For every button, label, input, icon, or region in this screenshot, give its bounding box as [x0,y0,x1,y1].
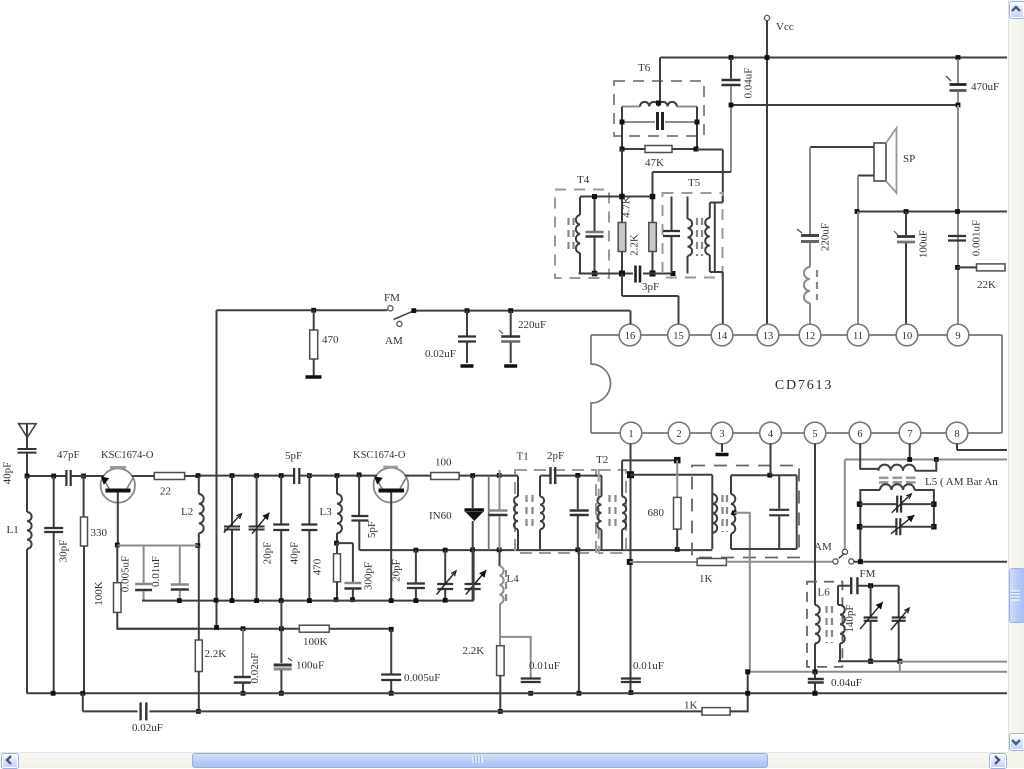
node junction L2 bottom [195,543,200,548]
wire switch contact riser x844.8 [844,460,846,549]
horizontal scrollbar track [0,752,1008,768]
node junction switch column [214,625,219,630]
svg-text:AM: AM [385,335,403,347]
inductor L6 primary [815,605,820,643]
wire 0.04uF bottom link y172 [653,171,732,173]
resistor 4.7K [618,223,626,252]
wire second supply rail y105 [731,104,958,106]
svg-text:9: 9 [955,331,960,342]
transformer T2 dashed box [599,470,626,553]
node junction T6 right y122 [695,120,700,125]
svg-text:680: 680 [648,507,665,519]
node junction L3 bottom [334,541,339,546]
svg-text:0.02uF: 0.02uF [425,348,456,360]
node secondary tap [732,510,737,515]
svg-text:3: 3 [719,429,724,440]
svg-text:22: 22 [160,486,171,498]
wire switch to FM tank [854,561,1007,563]
resistor 470 (L3 damping) [336,543,338,554]
capacitor 140pF (FM, series) [838,585,851,587]
node junction varcap2 bottom [254,598,259,603]
wire pin14 riser upper [722,150,724,197]
wire bias line y545.5 [117,545,198,547]
wire x216.5 vertical (switch to bias line) [216,310,218,627]
node junction 0.02uF top [241,626,246,631]
node junction FM line [868,583,873,588]
resistor 100 (series) [408,475,430,477]
node junction Q1 base/100K [115,543,120,548]
node junction tank right low [931,524,937,530]
node junction varcap8 bottom [897,659,902,664]
variable capacitor (AM tuning) [472,550,474,583]
vertical scrollbar track [1008,0,1024,751]
svg-text:470uF: 470uF [971,81,999,93]
wire speaker bottom feed [858,175,874,177]
node junction L5 right riser [934,457,939,462]
transformer L6 dashed box [807,582,842,667]
svg-text:330: 330 [91,527,108,539]
svg-text:1: 1 [628,429,633,440]
svg-text:0.02uF: 0.02uF [132,722,163,734]
node junction varcap2 top [254,473,259,478]
capacitor 5pF (Q2 emitter) [358,475,360,515]
wire T4 top rail y196.5 [580,196,653,198]
node junction at (731,105) [729,103,734,108]
capacitor T6 resonating (series in y122 line) [622,121,655,123]
svg-text:L6: L6 [818,587,831,599]
wire Vcc vertical to pin 13 [766,21,768,325]
capacitor 20pF (2nd) [415,550,417,582]
node junction 0.02uF ground [241,691,246,696]
transformer T6 winding [622,106,640,108]
svg-text:0.01uF: 0.01uF [150,556,162,587]
svg-text:220uF: 220uF [820,223,832,251]
transformer L6 core dashes [825,606,827,643]
svg-text:T5: T5 [688,177,701,189]
node junction tank top-left [627,471,634,478]
svg-text:100: 100 [435,457,452,469]
variable capacitor (AM osc trimmer) [444,550,446,583]
svg-text:300pF: 300pF [363,562,375,590]
transformer T1 core dashes [525,495,527,530]
wire L5 tank left side [860,490,880,560]
node junction antenna/rail [25,474,30,479]
wire pin11 riser [857,212,859,325]
capacitor 0.01uF (pin1) [621,677,641,679]
pin 10 [896,324,918,346]
node junction agc/tap [745,669,750,674]
detector transformer dashed box [692,466,799,558]
svg-text:15: 15 [673,331,684,342]
svg-text:KSC1674-O: KSC1674-O [101,450,154,461]
svg-text:6: 6 [857,429,862,440]
svg-text:Vcc: Vcc [776,21,794,33]
variable capacitor (FM tuning gang 1) [231,476,233,526]
capacitor 30pF [53,476,55,527]
capacitor 0.001uF [948,235,966,237]
capacitor 0.005uF (Q2 base) [390,629,392,673]
wire 47K right to pin14 riser [697,149,723,151]
inductor L6 secondary [837,586,839,605]
svg-text:40pF: 40pF [2,462,14,485]
wire pin14 riser lower [722,272,724,324]
node T6 center tap [656,101,661,106]
svg-text:L1: L1 [7,524,19,536]
svg-text:2.2K: 2.2K [205,648,227,660]
node junction Q2 col ground [389,691,394,696]
node junction tank right mid [931,501,937,507]
wire FM tank bottom [838,660,900,662]
node junction 40pF top [307,473,312,478]
node junction pin7 [907,457,912,462]
wire pin6 riser [860,444,878,471]
resistor 2.2K (T5 damping) [652,197,654,223]
pin 8 [946,422,968,444]
svg-text:5pF: 5pF [285,450,302,462]
node junction 4.7K bottom [619,271,625,277]
pin 11 [847,324,869,346]
capacitor 470uF electrolytic [957,59,959,83]
wire pin5 riser [814,444,816,606]
vertical scrollbar thumb [1009,568,1024,623]
svg-text:L5 ( AM Bar An: L5 ( AM Bar An [925,476,998,488]
wire pin1 riser [630,444,632,693]
capacitor 0.01uF (left) [179,546,181,584]
wire top supply rail y58 [660,57,1007,59]
svg-text:16: 16 [625,331,636,342]
wire 470uF column down to pin 9 [957,105,959,324]
wire T4 bottom rail y273.5 [579,273,634,275]
antenna [19,424,36,438]
detector transformer primary winding [712,494,717,533]
svg-text:5pF: 5pF [366,521,378,538]
svg-text:0.01uF: 0.01uF [529,660,560,672]
pin 16 [619,324,641,346]
detector transformer core dashes [721,495,723,532]
wire T6 center tap from top rail [659,58,661,102]
svg-text:40pF: 40pF [289,542,301,565]
pin 4 [760,422,782,444]
resistor 470 (switch bias) [311,308,316,313]
vertical scrollbar down button [1009,733,1024,751]
svg-text:10: 10 [902,331,913,342]
svg-text:KSC1674-O: KSC1674-O [353,450,406,461]
svg-text:470: 470 [312,558,324,575]
resistor 2.2K (right) [497,646,505,676]
node junction 22K tap [955,265,960,270]
node junction varcap4 top [470,547,475,552]
node junction 30pF ground [51,691,56,696]
node junction L2 column/bus [214,598,219,603]
wire L4 to 0.01uF [500,637,531,678]
wire 100K bottom to bias bus [117,612,197,628]
node junction 300pF bottom [350,597,355,602]
node junction varcap1 top [230,473,235,478]
resistor 2.2K (L2 bias) [198,546,200,641]
node junction pin2 riser [674,457,681,464]
node junction T6 left y122 [620,120,625,125]
wire bias bus y628.7 [117,628,391,630]
node junction pin5/agc bus [813,669,818,674]
node junction 0.01uF bottom [177,598,182,603]
wire secondary tank top rail [731,474,797,476]
svg-text:AM: AM [814,541,832,553]
wire left vertical x622 (47K to 4.7K) [621,149,623,223]
ground bar pin 3 [721,444,723,453]
node junction 330 ground / bus2 corner [80,691,85,696]
node junction varcap3 top [443,548,448,553]
resistor 680 [676,460,678,497]
svg-text:0.005uF: 0.005uF [119,556,131,592]
svg-text:20pF: 20pF [262,542,274,565]
svg-text:100K: 100K [303,636,328,648]
node junction T1 primary top [497,473,502,478]
node junction tank left low [857,524,863,530]
wire secondary tank right edge [796,475,798,549]
node junction x579 ground [577,691,582,696]
transformer T5 core dashes [696,218,698,256]
node junction T2 cap bottom [575,547,580,552]
pin 1 [620,422,642,444]
transformer T1 dashed box [515,470,596,553]
capacitor 300pF [337,542,353,544]
capacitor 100uF [905,212,907,236]
capacitor 0.005uF (left) [143,546,145,584]
svg-text:L2: L2 [181,506,193,518]
svg-text:1K: 1K [684,700,698,712]
node junction L3 top [335,473,340,478]
svg-text:4: 4 [768,429,774,440]
wire ground bus1 y693.3 [27,692,1007,694]
capacitor T2 resonating [577,476,579,509]
svg-text:0.02uF: 0.02uF [249,653,261,684]
capacitor 40pF (antenna coupling) [18,448,37,450]
svg-text:13: 13 [763,331,774,342]
wire pin4 riser [770,444,772,476]
pin 5 [804,422,826,444]
node junction 100uF ground [279,691,284,696]
transformer T4 dashed box [555,190,609,279]
capacitor 0.04uF (pin5) [814,672,816,678]
transformer T6 shield dashed box [614,81,704,136]
capacitor 220uF (pin16) [508,308,513,313]
wire gray line y459.5 [845,459,1007,461]
node junction T4 cap top [592,194,597,199]
capacitor secondary tank [778,475,780,508]
svg-text:2: 2 [676,429,681,440]
svg-text:7: 7 [907,429,912,440]
node junction Vcc/top rail [765,55,770,60]
svg-text:100uF: 100uF [296,660,324,672]
wire Q2 base lead [390,493,392,601]
svg-text:4.7K: 4.7K [621,196,633,218]
inductor choke below 220uF [809,243,811,267]
wire bus2 y711.4 [82,693,84,711]
node junction speaker/rail [855,209,860,214]
svg-text:220uF: 220uF [518,319,546,331]
transformer T2 secondary winding [621,460,623,496]
node junction 2.2K bus2 [498,709,503,714]
svg-text:2pF: 2pF [547,450,564,462]
node junction 2.2K top [650,194,656,200]
ground bar below 470 [306,375,322,379]
node junction 30pF [51,474,56,479]
inductor L5 core bars [879,476,889,479]
node junction 470uF bottom [956,103,961,108]
node junction 3pF right [671,271,676,276]
horizontal scrollbar thumb [192,753,768,768]
capacitor 20pF [280,476,282,524]
svg-text:FM: FM [860,568,876,580]
node junction 0.04uF top [729,55,734,60]
node junction switch common [411,308,416,313]
svg-text:FM: FM [384,292,400,304]
capacitor 3pF (series in bottom rail) [634,266,637,283]
wire ground bus y600.6 [142,600,474,602]
capacitor T5 resonating [671,197,673,231]
node junction diode top [470,473,475,478]
node junction 2.2K bottom [650,271,656,277]
node junction 0.01uF ground [528,691,533,696]
svg-text:IN60: IN60 [429,510,452,522]
capacitor T1 resonating [499,470,501,510]
svg-text:47pF: 47pF [57,449,80,461]
node junction 20pF2 top [414,548,419,553]
capacitor 0.02uF (pin16 decoupling) [465,308,470,313]
node junction varcap1 bottom [230,598,235,603]
node junction pin1 ground [629,690,634,695]
node junction T2 cap top [575,473,580,478]
variable capacitor FM tuning [898,586,900,617]
wire main rail y476 left segment [27,475,66,477]
node junction 5pF/Q2 [357,472,362,477]
variable capacitor AM tuning (series y526.7) [860,526,896,528]
svg-text:140pF: 140pF [844,604,856,632]
wire secondary tank bottom rail [731,548,797,550]
svg-text:L4: L4 [507,573,520,585]
wire T6 left vertical [621,107,623,150]
node junction 0.001uF column [955,209,960,214]
svg-text:20pF: 20pF [391,559,403,582]
svg-text:11: 11 [853,331,863,342]
node junction L2 top [196,473,201,478]
wire speaker top feed [810,146,874,148]
transformer T1 primary winding [517,476,519,497]
wire pin8 lead to edge [956,444,958,451]
transformer T1 secondary winding [539,476,541,497]
wire x488.7 (detector) [488,477,490,550]
wire rail into T1 [499,475,518,477]
node junction pin4 [767,473,772,478]
transformer T5 dashed box [663,193,723,278]
svg-text:CD7613: CD7613 [775,378,833,393]
pin 13 [757,324,779,346]
detector transformer secondary winding [730,475,732,494]
node junction 47K left [620,147,625,152]
wire Q1 base lead [117,493,119,546]
svg-text:1K: 1K [699,573,713,585]
node junction pin1/1K line [627,559,633,565]
capacitor 0.01uF (T1 col) [521,677,541,679]
svg-text:2.2K: 2.2K [629,234,641,256]
node junction 20pF2 bottom [414,598,419,603]
svg-text:22K: 22K [977,279,996,291]
transformer T2 primary winding [601,476,603,497]
wire agc bus y671.8 (gray) [748,671,1007,673]
resistor 22 (series) [135,475,154,477]
resistor 22K [958,266,977,268]
capacitor 0.02uF (series in bus2) [139,702,141,720]
wire T2 secondary to pin2 riser [622,459,677,461]
node junction pin5 ground [813,691,818,696]
pin 12 [799,324,821,346]
svg-text:470: 470 [322,334,339,346]
svg-text:L3: L3 [320,506,333,518]
resistor 1K (bottom) [702,708,730,716]
svg-text:5: 5 [812,429,817,440]
svg-text:T1: T1 [517,451,529,463]
svg-text:0.04uF: 0.04uF [831,677,862,689]
wire rail y476 middle segment [198,475,294,477]
transformer T5 secondary winding [722,196,724,203]
svg-text:3pF: 3pF [642,281,659,293]
wire feedback rail y211.5 [856,211,1007,213]
resistor 100K (vertical) [116,545,118,583]
node junction L5/switch line [858,559,863,564]
node junction 2.2K bottom bus2 [196,709,201,714]
node junction bus1/x747 cross [745,691,750,696]
IC CD7613 body [591,335,611,433]
horizontal scrollbar right button [989,753,1007,769]
capacitor 220uF electrolytic (pin12) [809,147,811,234]
corner [1008,751,1024,768]
pin 6 [849,422,871,444]
node junction x622 y196.5 [619,194,625,200]
svg-text:T2: T2 [596,454,608,466]
transformer T2 core dashes [608,495,610,530]
node junction 20pF bottom [279,598,284,603]
node junction 40pF bottom [307,598,312,603]
pin 7 [899,422,921,444]
wire switch line y310.6 [217,309,388,311]
svg-text:SP: SP [903,153,915,165]
node junction 100uF column [279,626,284,631]
wire tank rectangle (pins 1-2) [631,474,713,476]
capacitor 40pF [308,476,310,524]
variable capacitor (FM tuning gang 2) [256,476,258,526]
inductor L5 primary (AM bar antenna) [878,465,915,471]
node junction 100uF top [904,209,909,214]
wire detector line y550 [359,549,712,551]
node junction Q2 base/bus [389,598,394,603]
pin 3 [711,422,733,444]
resistor 100K (horizontal) [299,625,329,632]
wire T5 box right vertical [714,204,716,272]
node junction T4 cap bottom [592,271,598,277]
pin 15 [668,324,690,346]
svg-text:14: 14 [717,331,728,342]
capacitor T4 resonating [594,197,596,232]
resistor 47K [622,148,645,150]
svg-text:T4: T4 [577,174,590,186]
pin 2 [668,422,690,444]
svg-text:0.001uF: 0.001uF [971,220,983,256]
node junction 47pF right [81,474,86,479]
transformer T4 core dashes [567,218,569,254]
capacitor 100uF electrolytic (bias) [280,601,282,663]
speaker SP [874,143,886,181]
node junction 47K right [694,147,699,152]
